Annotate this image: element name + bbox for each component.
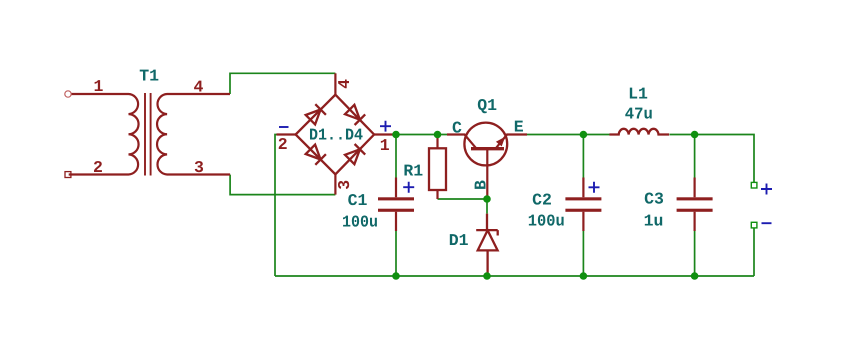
wire: T1 pin4 to bridge top <box>230 73 335 94</box>
bridge diode on left-bottom edge <box>306 145 326 165</box>
svg-text:C: C <box>452 119 462 138</box>
junction dot C1 bottom <box>392 272 400 280</box>
wire: minus terminal to ground rail <box>753 228 755 276</box>
wire: top rail bridge to Q1 collector <box>392 134 447 136</box>
wire: top rail L1 to plus terminal <box>670 135 755 183</box>
C1 plus mark <box>403 182 414 193</box>
resistor R1 <box>429 135 446 200</box>
plus output terminal square <box>751 182 757 188</box>
junction dot C3 top <box>691 131 699 139</box>
junction dot base node <box>483 195 491 203</box>
svg-text:1: 1 <box>94 77 104 96</box>
svg-text:3: 3 <box>194 158 204 177</box>
svg-text:2: 2 <box>278 135 288 154</box>
svg-text:C1: C1 <box>348 191 368 210</box>
wire: bridge pin2 down to ground rail <box>275 135 277 277</box>
svg-text:1: 1 <box>380 136 390 155</box>
T1 pin1 open-end circle <box>65 91 71 97</box>
bridge rectifier D1..D4 diamond <box>296 95 375 175</box>
wire: base node to D1 <box>486 199 488 214</box>
junction dot R1 top <box>434 131 442 139</box>
svg-text:2: 2 <box>93 158 103 177</box>
junction dot bridge out / C1 top <box>392 131 400 139</box>
svg-text:Q1: Q1 <box>477 96 497 115</box>
transformer core <box>145 93 151 176</box>
wire: C3 top <box>694 135 696 178</box>
T1 pin2 open-end square <box>65 172 71 178</box>
bridge pin 1 (right) <box>374 133 392 135</box>
svg-text:T1: T1 <box>139 66 159 85</box>
svg-text:E: E <box>514 118 524 137</box>
transistor Q1 <box>447 123 527 199</box>
svg-text:4: 4 <box>193 77 203 96</box>
svg-text:100u: 100u <box>342 212 378 231</box>
bridge pin 4 (top) <box>334 73 336 94</box>
bridge plus mark <box>380 121 391 132</box>
svg-text:B: B <box>471 180 490 190</box>
junction dot C2 top <box>580 131 588 139</box>
svg-text:C2: C2 <box>532 190 552 209</box>
wire: C1 bottom <box>395 231 397 276</box>
svg-text:L1: L1 <box>628 85 648 104</box>
junction dot C3 bottom <box>691 272 699 280</box>
inductor L1 <box>609 129 669 135</box>
capacitor C2 <box>565 178 601 232</box>
wire: top rail Q1 emitter to L1 <box>527 134 610 136</box>
wire: C1 top <box>395 135 397 178</box>
bridge pin 3 (bottom) <box>334 174 336 194</box>
capacitor C3 <box>677 178 713 232</box>
transformer T1 <box>69 94 230 175</box>
svg-text:47u: 47u <box>625 105 653 124</box>
wire: C2 bottom <box>582 231 584 276</box>
wire: C2 top <box>582 135 584 178</box>
bridge pin 2 (left) <box>277 133 296 135</box>
bridge diode on bottom-right edge <box>345 144 365 164</box>
minus output terminal square <box>751 222 757 228</box>
capacitor C1 <box>378 178 414 232</box>
svg-text:4: 4 <box>335 79 354 89</box>
junction dot D1 bottom <box>483 272 491 280</box>
svg-text:1u: 1u <box>644 211 664 230</box>
bridge diode on top-right edge <box>345 105 365 125</box>
wire: ground rail <box>275 275 754 277</box>
C2 plus mark <box>589 182 600 193</box>
wire: R1 bottom to base node <box>438 198 488 200</box>
svg-text:3: 3 <box>335 180 354 190</box>
svg-text:C3: C3 <box>644 189 664 208</box>
svg-text:R1: R1 <box>403 162 423 181</box>
output minus mark <box>762 222 772 224</box>
wire: C3 bottom <box>694 231 696 276</box>
bridge diode on left-top edge <box>306 104 326 124</box>
wire: T1 pin3 to bridge bottom <box>230 175 335 195</box>
junction dot C2 bottom <box>580 272 588 280</box>
svg-text:D1: D1 <box>449 231 469 250</box>
bridge minus mark <box>279 126 289 128</box>
svg-text:100u: 100u <box>528 211 565 230</box>
svg-text:D1..D4: D1..D4 <box>309 125 363 144</box>
zener diode D1 <box>476 214 498 276</box>
output plus mark <box>761 184 772 195</box>
